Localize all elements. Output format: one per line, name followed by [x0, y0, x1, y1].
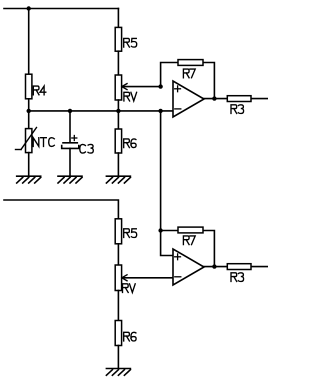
- resistor R6 (circuit 1): [115, 129, 136, 153]
- resistor R7 (circuit 1): [178, 60, 203, 78]
- thermistor NTC: [16, 128, 55, 153]
- resistor R5 (circuit 2): [115, 219, 137, 244]
- wire: NTC to ground: [28, 153, 30, 176]
- node: junction dot U1 output: [212, 96, 216, 100]
- node: junction dot U1 - input: [158, 109, 162, 113]
- wire: R6 to ground (circuit 1): [117, 153, 119, 176]
- ground (R6 circuit 1): [106, 176, 130, 183]
- resistor R4: [26, 74, 46, 99]
- wire: U2 output: [204, 266, 268, 268]
- wire: top rail circuit 2: [4, 200, 118, 219]
- resistor R7 (circuit 2): [178, 227, 203, 244]
- wire: main node row: [29, 110, 173, 112]
- capacitor C3: [62, 136, 94, 154]
- wire: top rail down to R5 (circuit 1): [117, 9, 119, 28]
- wire: node row down to NTC: [28, 111, 30, 129]
- ground (R6 circuit 2): [106, 369, 130, 376]
- wire: node row down to R6 (circuit 1): [117, 111, 119, 129]
- wire: node row down to C3: [69, 111, 71, 143]
- wire: R6 to ground (circuit 2): [117, 346, 119, 369]
- wire: RV to R6 (circuit 2): [117, 291, 119, 321]
- node: junction dot R6 column / node row: [116, 109, 120, 113]
- wire: feedback loop U1: [161, 63, 215, 99]
- resistor R6 (circuit 2): [115, 321, 136, 346]
- wire: top rail down to R4: [28, 9, 30, 75]
- wire: RV wiper to op-amp U2 - input: [122, 277, 173, 279]
- potentiometer RV (circuit 1): [115, 75, 136, 101]
- potentiometer RV (circuit 2): [115, 265, 135, 293]
- node: junction dot R4/node row: [27, 109, 31, 113]
- node: junction dot U1 + input: [158, 84, 162, 88]
- wire: R5 to RV (circuit 1): [117, 51, 119, 75]
- wire: feedback node to U2 + input: [161, 231, 173, 256]
- node: junction dot C3 tap: [68, 109, 72, 113]
- wire: U1 - node down to U2 feedback node: [160, 111, 162, 231]
- wire: R5 to RV (circuit 2): [117, 244, 119, 265]
- op-amp U1: [173, 81, 204, 117]
- node: junction dot U2 output: [212, 264, 216, 268]
- wire: RV to node row (circuit 1): [117, 100, 119, 111]
- ground (NTC): [17, 176, 41, 183]
- wire: top rail circuit 1: [4, 8, 118, 10]
- resistor R5 (circuit 1): [115, 27, 137, 51]
- wire: feedback loop U2: [161, 231, 215, 267]
- op-amp U2: [173, 249, 204, 285]
- ground (C3): [58, 176, 82, 183]
- wire: C3 to ground: [69, 148, 71, 176]
- wire: R4 to node row: [28, 99, 30, 111]
- node: junction dot U2 feedback: [158, 228, 162, 232]
- node: junction dot top rail / R4 column: [27, 6, 31, 10]
- wire: U1 output: [204, 98, 268, 100]
- resistor R3 (circuit 2): [227, 264, 251, 282]
- wire: RV wiper to op-amp U1 + input: [122, 86, 161, 88]
- resistor R3 (circuit 1): [227, 96, 251, 114]
